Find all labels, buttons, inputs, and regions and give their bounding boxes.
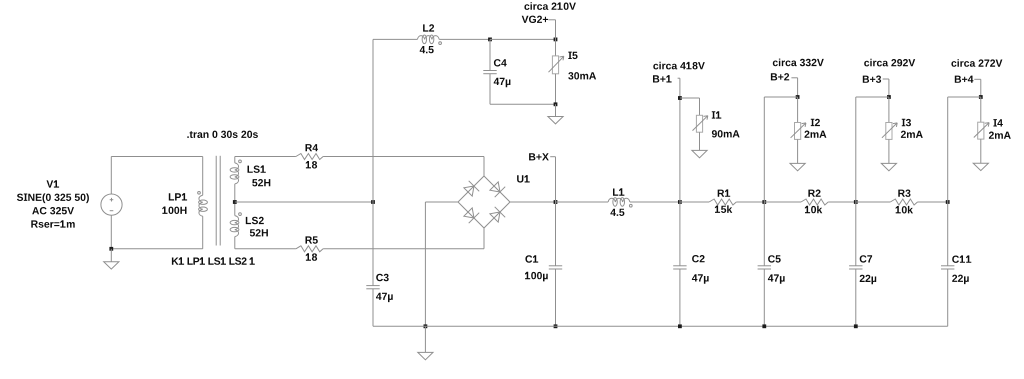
junction dot B+3 branch xyxy=(887,95,891,99)
wire: LP1 bottom lead xyxy=(202,216,204,249)
wire: C2 top lead xyxy=(679,202,681,266)
label LS1 xyxy=(248,165,266,173)
label circa 418V / B+1 xyxy=(653,62,705,70)
capacitor C11 xyxy=(941,265,954,267)
junction dot B+X xyxy=(554,200,558,204)
wire: B+4 flag stub xyxy=(974,78,981,80)
current load I1 xyxy=(696,115,702,132)
junction dot B+1 node xyxy=(678,200,682,204)
wire: L1 to B+1 node xyxy=(630,201,680,203)
ground below I4 xyxy=(973,163,988,170)
junction dot C2 rail xyxy=(678,324,682,328)
wire: B+3 branch to column xyxy=(856,96,889,98)
wire: C5 top lead xyxy=(763,202,765,266)
junction dot B+2 branch xyxy=(796,95,800,99)
wire: B+3 flag stub xyxy=(883,78,889,80)
label U1 xyxy=(517,175,530,183)
diode D top-right xyxy=(490,182,500,192)
ground below I3 xyxy=(881,163,896,170)
wire: I1 bottom lead xyxy=(699,132,701,150)
wire: C7 bottom lead xyxy=(855,269,857,326)
wire: I5 top lead xyxy=(555,39,557,56)
ground main xyxy=(424,326,426,352)
wire: V1 bottom lead xyxy=(110,215,112,249)
wire: C7 top lead xyxy=(855,202,857,266)
wire: B+2 flag stub xyxy=(791,77,797,79)
capacitor C3 xyxy=(366,285,379,287)
wire: C1 top lead xyxy=(555,202,557,266)
junction dot ground rail xyxy=(424,324,428,328)
junction dot B+1 branch xyxy=(678,96,682,100)
resistor R1 xyxy=(709,199,736,205)
wire: B+1 to R1 xyxy=(680,201,709,203)
current load I3 xyxy=(886,123,892,140)
wire: to L2 xyxy=(373,38,417,40)
wire: B+1 flag stub xyxy=(678,77,680,79)
wire: B+X to L1 xyxy=(556,201,609,203)
wire: B+2 branch to column xyxy=(764,96,797,98)
wire: C5 bottom lead xyxy=(763,269,765,326)
wire: I2 top lead xyxy=(797,97,799,123)
inductor LS1 xyxy=(235,163,239,184)
wire: C11 bottom lead xyxy=(947,269,949,326)
ground below I1 xyxy=(692,150,707,157)
label transformer coupling K1 xyxy=(172,257,255,265)
inductor L2 xyxy=(417,36,439,40)
junction dot C4 top xyxy=(488,38,492,42)
label LP1 xyxy=(169,193,187,200)
inductor L1 xyxy=(608,198,630,202)
wire: R3 to B+4 node xyxy=(918,201,948,203)
wire: bridge left vertex to ground column xyxy=(425,201,458,203)
wire: C4 bottom lead xyxy=(489,74,491,105)
wire: I4 bottom lead xyxy=(980,139,982,163)
wire: I3 top lead xyxy=(888,97,890,123)
wire: primary loop bottom xyxy=(111,248,202,250)
wire: B+1 column xyxy=(679,78,681,202)
wire: R2 to B+3 node xyxy=(828,201,856,203)
junction dot B+3 node xyxy=(854,200,858,204)
wire: bridge right vertex to B+X node xyxy=(510,201,556,203)
label VG2+ flag xyxy=(549,19,556,21)
diode bridge U1 diamond xyxy=(458,176,510,228)
capacitor C1 xyxy=(549,265,562,267)
diode D bottom-left xyxy=(464,208,474,218)
voltage source V1 xyxy=(101,194,122,215)
ground below I5 xyxy=(555,104,557,116)
junction dot at V1 bottom xyxy=(109,247,113,251)
wire: R4 to bridge top xyxy=(323,156,484,158)
ground below I2 xyxy=(790,163,805,170)
resistor R5 xyxy=(296,246,323,252)
junction dot C1 rail xyxy=(554,324,558,328)
transformer core xyxy=(215,156,217,246)
wire: LS2 to R5 xyxy=(235,248,296,250)
label V1 value block xyxy=(47,180,60,187)
current load I2 xyxy=(795,123,801,140)
junction dot C7 rail xyxy=(854,324,858,328)
wire: LS1 top lead xyxy=(234,157,236,163)
junction dot at L2 column xyxy=(371,200,375,204)
wire: C11 top lead xyxy=(947,202,949,266)
resistor R2 xyxy=(801,199,828,205)
capacitor C7 xyxy=(849,265,862,267)
inductor LP1 xyxy=(199,195,203,216)
wire: R5 to bridge bottom xyxy=(323,248,484,250)
wire: LP1 top lead xyxy=(202,157,204,196)
wire: B+4 branch to column xyxy=(948,96,981,98)
wire: I2 bottom lead xyxy=(797,139,799,163)
wire: L2 column vertical xyxy=(372,39,374,285)
wire: C1 bottom lead xyxy=(555,269,557,326)
wire: R1 to B+2 node xyxy=(736,201,764,203)
junction dot I5 bottom xyxy=(554,102,558,106)
wire: I3 bottom lead xyxy=(888,139,890,163)
wire: LS1 to center tap xyxy=(234,184,236,216)
resistor R4 xyxy=(296,154,323,160)
label circa 272V / B+4 xyxy=(951,59,1002,67)
junction dot B+4 branch xyxy=(979,95,983,99)
wire: C3 to ground rail xyxy=(372,289,374,327)
junction dot B+4 node xyxy=(946,200,950,204)
wire: center tap to L2 column xyxy=(235,201,373,203)
label circa 332V / B+2 xyxy=(773,59,824,67)
wire: to I1 xyxy=(680,97,700,99)
wire: I4 top lead xyxy=(980,97,982,122)
wire: C4 top lead xyxy=(489,39,491,70)
capacitor C4 xyxy=(483,70,496,72)
diode D top-left xyxy=(464,186,474,196)
wire: V1 top lead xyxy=(110,157,112,195)
capacitor C5 xyxy=(758,265,771,267)
spice directive .tran xyxy=(187,131,258,138)
wire: B+3 to R3 xyxy=(856,201,891,203)
diode D bottom-right xyxy=(490,212,500,222)
inductor LS2 xyxy=(235,216,239,237)
label circa 292V / B+3 xyxy=(864,59,915,67)
junction dot VG2+ node xyxy=(554,38,558,42)
wire: I5 bottom lead xyxy=(555,74,557,105)
capacitor C2 xyxy=(673,265,686,267)
wire: primary loop top xyxy=(111,156,202,158)
current load I5 xyxy=(552,56,558,74)
label B+X flag xyxy=(550,156,555,158)
ground rail bottom xyxy=(373,325,948,327)
resistor R3 xyxy=(890,199,917,205)
junction dot C5 rail xyxy=(762,324,766,328)
junction dot center tap xyxy=(233,200,237,204)
wire: L2 to C4 node xyxy=(439,38,490,40)
wire: VG2+ node top xyxy=(490,38,556,40)
junction dot B+2 node xyxy=(762,200,766,204)
ground at V1 xyxy=(110,249,112,262)
wire: LS1 to R4 xyxy=(235,156,296,158)
wire: C2 bottom lead xyxy=(679,269,681,326)
current load I4 xyxy=(978,122,984,139)
label LS2 xyxy=(246,217,264,224)
wire: B+2 to R2 xyxy=(764,201,801,203)
wire: LS2 bottom lead xyxy=(234,237,236,249)
